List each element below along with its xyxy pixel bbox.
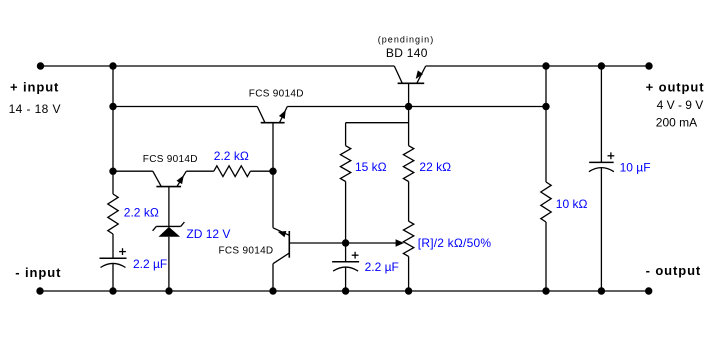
svg-text:2.2 µF: 2.2 µF [365,260,399,274]
svg-text:FCS 9014D: FCS 9014D [143,154,198,165]
svg-text:FCS 9014D: FCS 9014D [249,89,304,100]
svg-text:14 - 18 V: 14 - 18 V [9,102,61,116]
svg-text:2.2 kΩ: 2.2 kΩ [214,149,249,163]
svg-text:BD 140: BD 140 [386,46,428,60]
svg-text:[R]/2 kΩ/50%: [R]/2 kΩ/50% [418,236,492,250]
svg-text:(pendingin): (pendingin) [378,34,435,44]
svg-text:200 mA: 200 mA [656,115,697,129]
svg-text:22 kΩ: 22 kΩ [419,160,451,174]
svg-text:15 kΩ: 15 kΩ [355,160,387,174]
svg-text:2.2 kΩ: 2.2 kΩ [124,206,159,220]
svg-text:+ output: + output [646,80,705,95]
svg-text:+ input: + input [10,80,59,95]
svg-text:FCS 9014D: FCS 9014D [219,246,274,257]
svg-text:ZD 12 V: ZD 12 V [186,227,230,241]
svg-text:10 µF: 10 µF [620,161,651,175]
svg-text:- input: - input [15,265,61,280]
svg-text:2.2 µF: 2.2 µF [133,257,167,271]
svg-text:4 V - 9 V: 4 V - 9 V [657,98,704,112]
svg-text:- output: - output [646,263,702,278]
svg-text:10 kΩ: 10 kΩ [556,197,588,211]
